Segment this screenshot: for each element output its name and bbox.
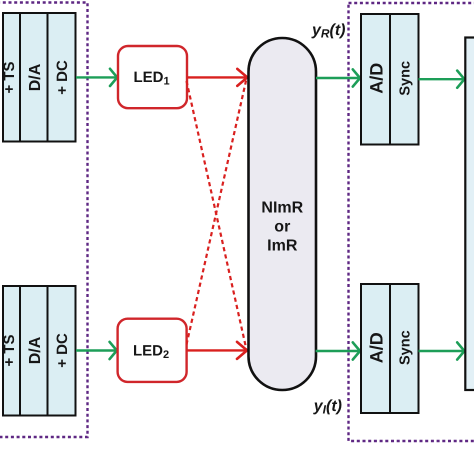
- top TX block group (+TS, D/A, +DC): [3, 13, 76, 142]
- LED2 box: [118, 319, 187, 382]
- green arrow TX2 to LED2: [76, 342, 117, 359]
- svg-text:or: or: [274, 219, 290, 236]
- bottom RX block group (A/D, Sync): [361, 284, 419, 413]
- green arrow AD1 to DSP: [419, 71, 465, 88]
- green arrow TX1 to LED1: [76, 69, 117, 86]
- svg-text:D/A: D/A: [27, 336, 44, 364]
- svg-text:A/D: A/D: [366, 332, 386, 363]
- green arrow channel to AD1: [316, 69, 360, 86]
- channel capsule NImR or ImR: [249, 38, 317, 390]
- svg-text:yR(t): yR(t): [311, 22, 346, 41]
- svg-text:Sync: Sync: [398, 61, 414, 96]
- svg-text:+ DC: + DC: [54, 60, 71, 95]
- LED1 box: [118, 46, 187, 108]
- svg-text:ImR: ImR: [267, 238, 298, 255]
- DSP block (right edge, clipped): [465, 38, 474, 391]
- svg-text:NImR: NImR: [261, 200, 303, 217]
- red solid arrow LED2 to channel: [187, 342, 248, 359]
- svg-text:D/A: D/A: [27, 63, 44, 91]
- svg-text:yI(t): yI(t): [313, 398, 342, 417]
- green arrow AD2 to DSP: [419, 342, 465, 359]
- svg-text:+ TS: + TS: [1, 61, 18, 93]
- receiver dashed boundary: [349, 3, 474, 441]
- red solid arrow LED1 to channel: [187, 69, 247, 86]
- red dashed cross path LED2 to upper channel port: [187, 80, 247, 345]
- svg-text:Sync: Sync: [398, 330, 414, 365]
- transmitter dashed boundary: [0, 3, 88, 438]
- svg-text:+ TS: + TS: [1, 334, 18, 366]
- top RX block group (A/D, Sync): [361, 14, 419, 145]
- svg-text:A/D: A/D: [366, 63, 386, 94]
- green arrow channel to AD2: [316, 342, 360, 359]
- red dashed cross path LED1 to lower channel port: [187, 81, 247, 349]
- bottom TX block group (+TS, D/A, +DC): [3, 286, 76, 416]
- svg-text:+ DC: + DC: [54, 333, 71, 368]
